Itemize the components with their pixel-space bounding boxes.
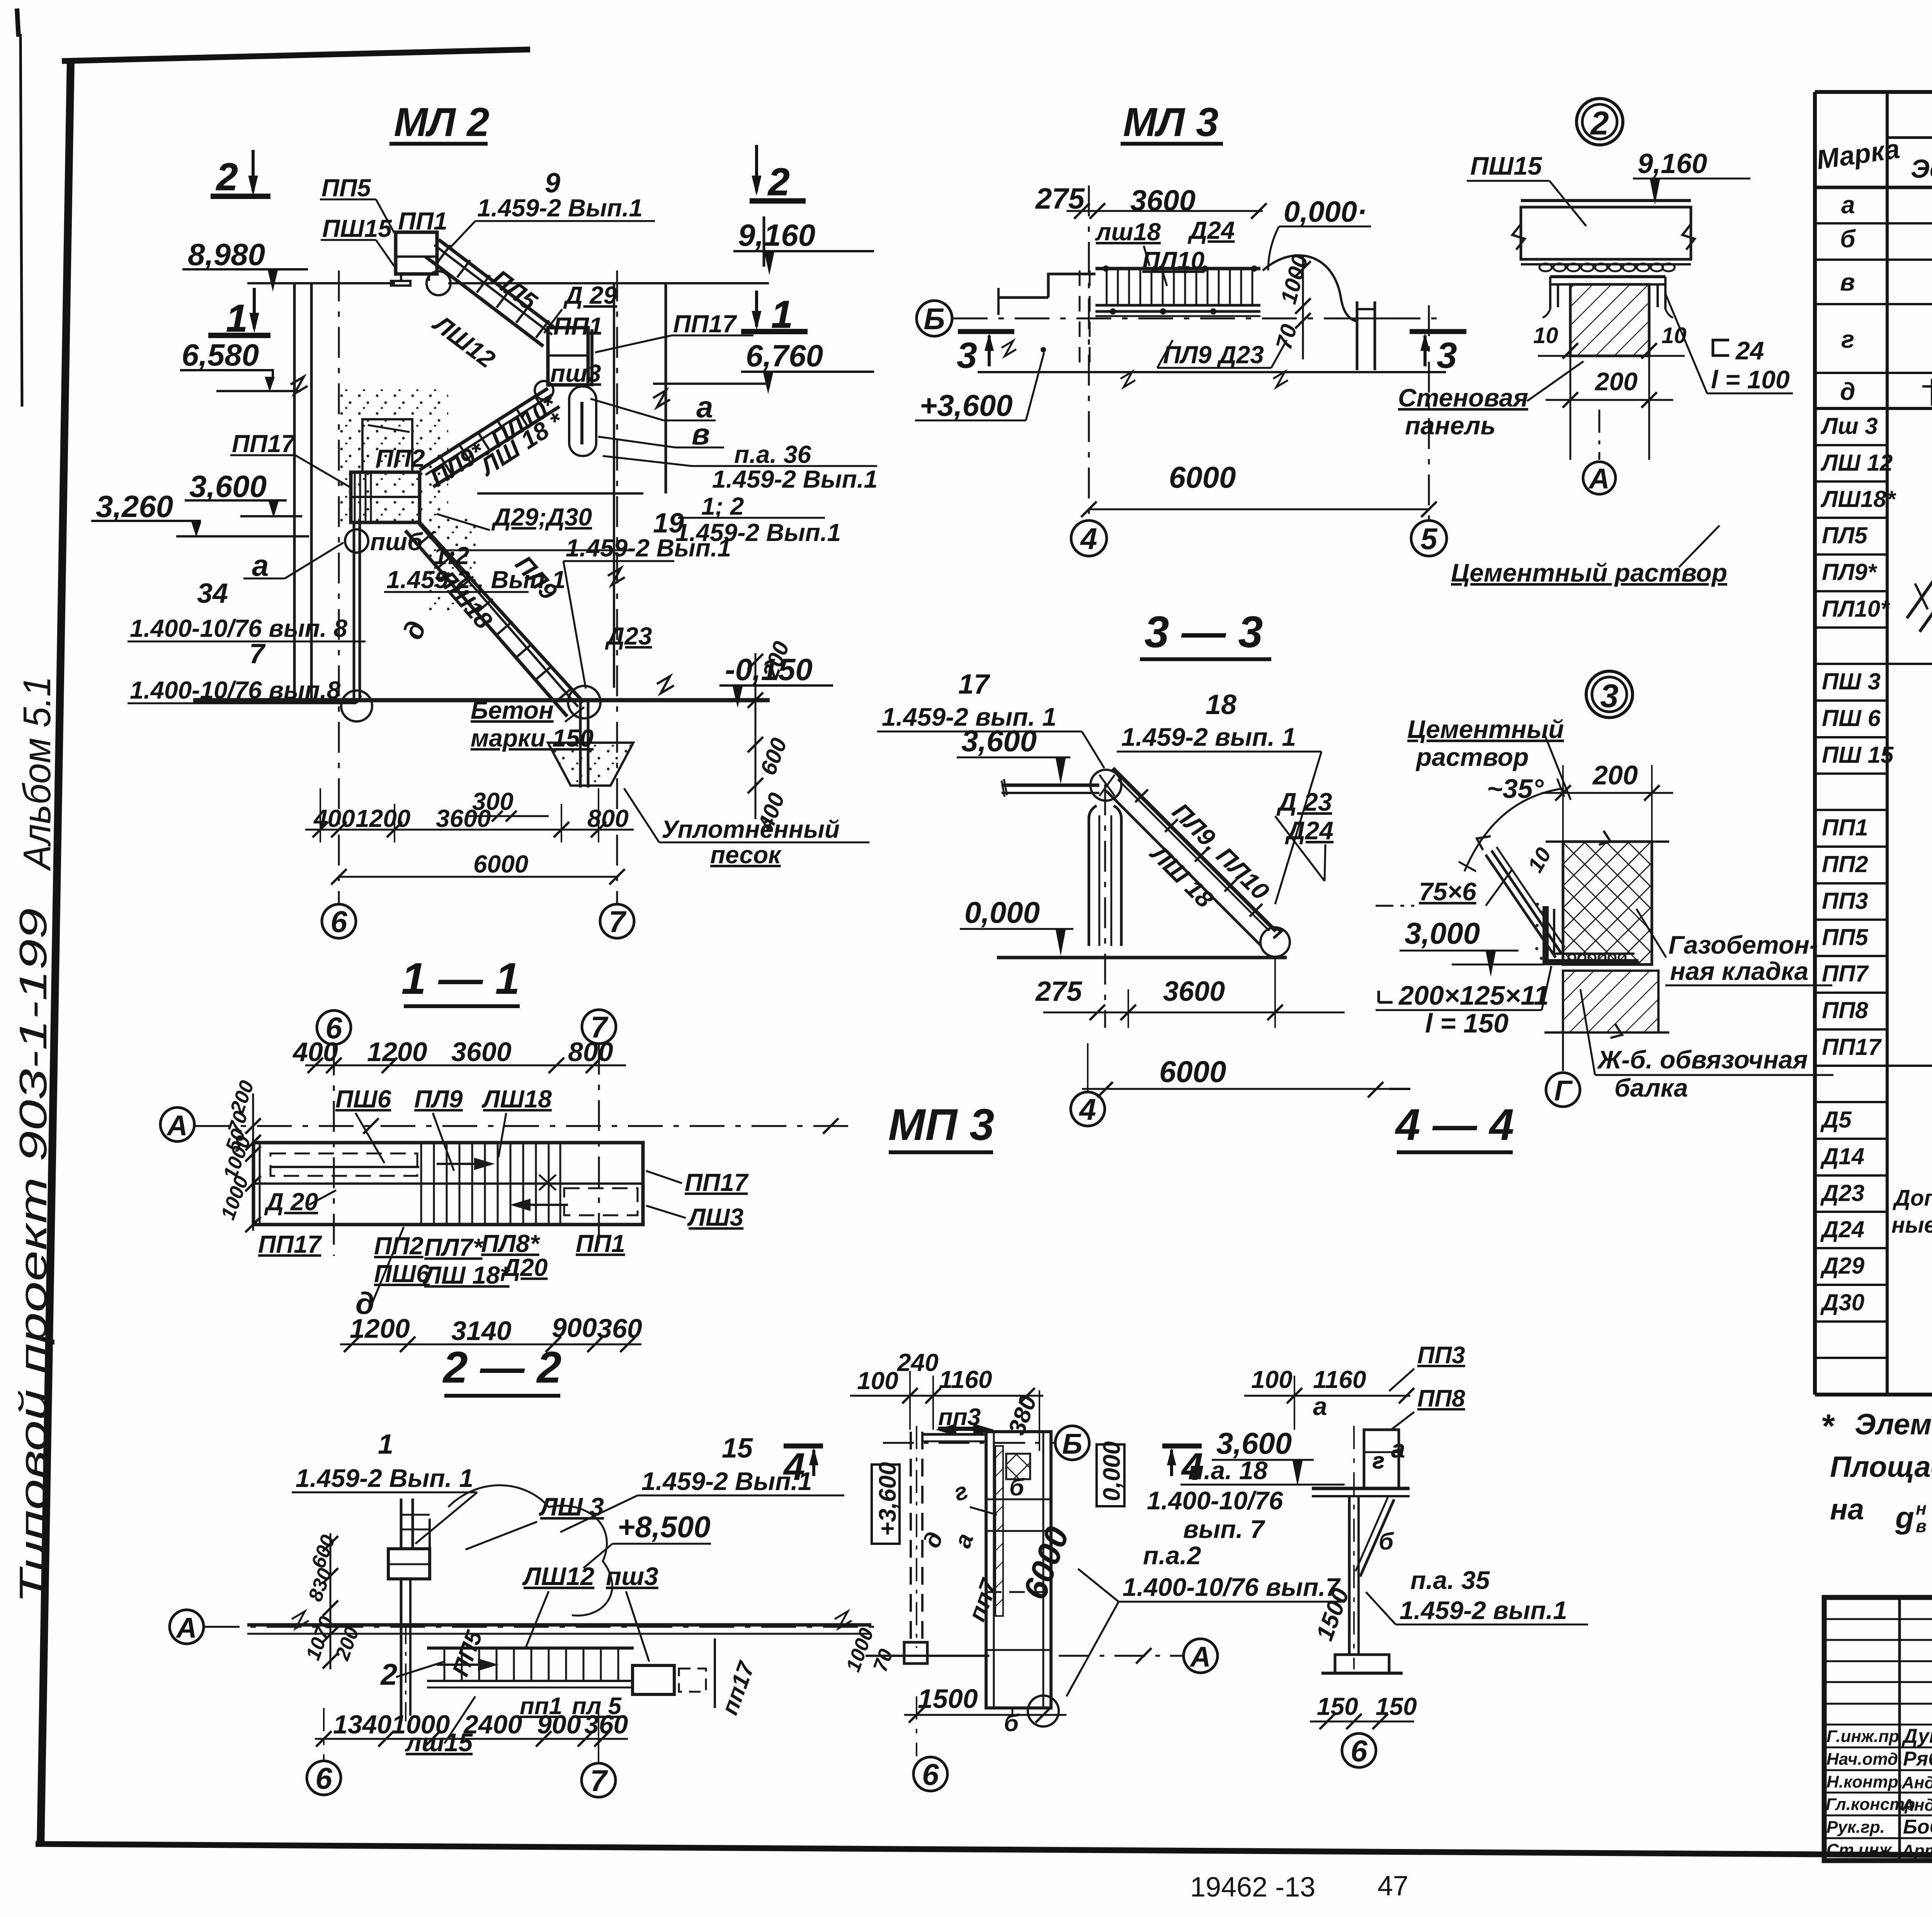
svg-text:4: 4 [783, 1445, 805, 1488]
svg-text:Б: Б [1062, 1428, 1082, 1460]
svg-text:1000: 1000 [391, 1710, 450, 1739]
grid bubble 6 top [317, 1010, 351, 1044]
section mark 3 with arrow (left) [958, 329, 1014, 334]
svg-text:1; 2: 1; 2 [701, 492, 744, 520]
svg-text:Д24: Д24 [1820, 1216, 1864, 1242]
0,000 boxed rotated [1097, 1444, 1124, 1506]
top platform [1312, 1430, 1410, 1496]
svg-text:9,160: 9,160 [738, 218, 815, 252]
sketch cell separators [1887, 663, 1932, 665]
svg-text:8,980: 8,980 [188, 237, 265, 272]
label LSh12 rotated [427, 309, 500, 373]
svg-text:3,600: 3,600 [961, 724, 1037, 758]
sand dots area [340, 388, 448, 524]
svg-text:Д24: Д24 [1285, 816, 1333, 845]
svg-text:3: 3 [1437, 335, 1457, 376]
svg-text:Н.контр.: Н.контр. [1827, 1772, 1903, 1791]
svg-text:1.459-2 Вып.1: 1.459-2 Вып.1 [712, 465, 878, 493]
svg-text:пш3: пш3 [550, 359, 601, 387]
axis A [170, 1610, 204, 1644]
grid bubble 6 [1342, 1733, 1376, 1767]
svg-text:Думан: Думан [1901, 1725, 1932, 1747]
svg-text:0,000·: 0,000· [1284, 196, 1367, 228]
top dims 240 / 100 1160 [857, 1349, 992, 1395]
sheet frame bottom edge [36, 1844, 1932, 1859]
platform PP1 top [391, 232, 437, 286]
svg-text:1.459-2 Вып. 1: 1.459-2 Вып. 1 [296, 1464, 473, 1492]
labels PL9* PL10* rotated on flight B [425, 390, 562, 492]
svg-text:2: 2 [1590, 105, 1609, 142]
level line 6,760 right [653, 383, 769, 385]
svg-text:1200: 1200 [355, 805, 410, 832]
svg-text:19462 -13: 19462 -13 [1190, 1872, 1315, 1903]
floor beam +8.500 [247, 1623, 871, 1627]
svg-text:ПШ6: ПШ6 [335, 1085, 391, 1113]
left margin rotated stamp text [12, 676, 59, 1604]
column below platform [401, 1579, 410, 1723]
grid bubble 5 [1428, 305, 1430, 520]
right vertical dims 1000 / 70 [1276, 252, 1313, 306]
long floor line with breaks [978, 371, 1446, 373]
svg-text:1.459-2 вып.1: 1.459-2 вып.1 [1400, 1596, 1567, 1624]
marka column row lines [1815, 445, 1887, 1358]
rows a-d lines [1815, 222, 1932, 225]
grid bubble 7 top [582, 1010, 616, 1044]
grid bubble 7 [582, 1763, 616, 1797]
svg-text:1 — 1: 1 — 1 [401, 954, 520, 1004]
cloud edge right [1263, 255, 1358, 321]
svg-text:б: б [1840, 225, 1856, 253]
svg-text:6: 6 [1350, 1734, 1367, 1768]
scan artifact thin line top-left [20, 34, 22, 407]
labels below row2 [374, 1260, 511, 1289]
bottom dim chain [333, 1710, 628, 1739]
label LSh18* rotated [474, 407, 569, 481]
svg-text:2400: 2400 [463, 1710, 522, 1739]
svg-text:3600: 3600 [1163, 976, 1225, 1007]
svg-text:150: 150 [1376, 1692, 1417, 1720]
axis A bottom [1059, 1655, 1183, 1657]
node 2 bubble [1577, 99, 1623, 145]
svg-text:п.а.2: п.а.2 [1143, 1541, 1201, 1570]
svg-text:7: 7 [249, 638, 266, 669]
svg-text:l = 150: l = 150 [1425, 1008, 1509, 1038]
svg-text:Андриевская: Андриевская [1901, 1773, 1932, 1792]
svg-text:А: А [1189, 1641, 1211, 1673]
svg-text:3600: 3600 [1130, 184, 1196, 217]
svg-text:3600: 3600 [451, 1037, 512, 1067]
svg-text:п.а. 18: п.а. 18 [1188, 1456, 1268, 1485]
bubble A [1583, 462, 1616, 494]
svg-text:1.400-10/76 вып.7: 1.400-10/76 вып.7 [1122, 1573, 1341, 1601]
platform PP1 middle [548, 328, 592, 386]
svg-text:пш3: пш3 [606, 1562, 658, 1590]
svg-text:Нач.отд.: Нач.отд. [1827, 1750, 1903, 1769]
svg-text:Площадки: и лестницы рассчитан: Площадки: и лестницы рассчитаны [1830, 1451, 1932, 1483]
svg-text:6000: 6000 [1169, 460, 1236, 494]
node circle bottom of flight C [568, 686, 600, 718]
grid bubble 6 [307, 1761, 341, 1795]
svg-text:3140: 3140 [451, 1316, 512, 1346]
svg-text:1.400-10/76: 1.400-10/76 [1147, 1486, 1284, 1515]
svg-text:Рук.гр.: Рук.гр. [1827, 1818, 1885, 1837]
svg-text:ПП17: ПП17 [232, 430, 296, 458]
svg-text:Цементный: Цементный [1407, 715, 1564, 743]
svg-text:47: 47 [1378, 1871, 1408, 1902]
svg-text:ПП17: ПП17 [673, 310, 738, 338]
bottom dims [350, 1313, 642, 1346]
+3,600 boxed rotated [872, 1465, 900, 1544]
label PL5 rotated on flight A [487, 264, 543, 316]
node circle bottom of column PP2 [341, 691, 372, 721]
svg-text:l = 100: l = 100 [1711, 365, 1790, 394]
masonry panel hatch [1570, 284, 1649, 356]
upper platform element [388, 1499, 430, 1579]
axis Б [1055, 1426, 1089, 1460]
svg-text:*: * [1821, 1408, 1835, 1445]
node 3 bubble [1586, 671, 1633, 718]
svg-text:Д 29: Д 29 [563, 281, 617, 309]
svg-text:ПП5: ПП5 [321, 174, 371, 202]
svg-text:ПЛ9 Д23: ПЛ9 Д23 [1163, 341, 1264, 369]
svg-text:Д14: Д14 [1820, 1143, 1864, 1169]
svg-text:Д29: Д29 [1820, 1253, 1865, 1279]
right wall column [1343, 301, 1391, 370]
svg-text:17: 17 [958, 669, 990, 700]
flight band plan [1095, 269, 1260, 316]
column [1349, 1426, 1359, 1669]
svg-text:ЛШ18*: ЛШ18* [1820, 486, 1896, 512]
labels below row1 [258, 1230, 625, 1281]
svg-text:Бетон: Бетон [471, 696, 554, 724]
level 3,600 [185, 469, 287, 518]
svg-text:4: 4 [1078, 1092, 1096, 1126]
svg-text:на: на [1830, 1493, 1864, 1526]
svg-text:ПП2: ПП2 [374, 1232, 423, 1260]
wall line right [613, 283, 615, 688]
svg-text:Газобетон-: Газобетон- [1668, 930, 1818, 959]
header texts [1815, 103, 1932, 190]
svg-text:ПЛ9*: ПЛ9* [1822, 559, 1878, 585]
svg-text:1: 1 [378, 1429, 393, 1460]
bottom dims 150 150 [1317, 1692, 1417, 1720]
grid bubble 4 [1071, 1092, 1105, 1126]
labels around flight [447, 1627, 487, 1680]
svg-text:Б: Б [923, 302, 945, 336]
cloud around upper platform [448, 1485, 612, 1616]
level line 6,580 left [216, 390, 301, 392]
wall double line left [293, 283, 296, 700]
section mark 1 (left) [208, 288, 270, 340]
svg-text:Д 20: Д 20 [264, 1188, 318, 1216]
dim 6000 rotated [1016, 1522, 1077, 1604]
column under PP2 [353, 522, 355, 700]
svg-text:+8,500: +8,500 [617, 1510, 711, 1544]
label 10 rotated [1523, 844, 1556, 876]
cement stipple left of angle [1535, 903, 1543, 960]
grid bubble 7 [600, 904, 634, 938]
svg-text:1340: 1340 [333, 1710, 391, 1739]
level 9,160 [733, 218, 874, 275]
label PL9 rotated on flight C [510, 550, 563, 605]
door rect above PP2 [362, 419, 412, 472]
svg-text:Бобрук: Бобрук [1903, 1816, 1932, 1838]
svg-text:МЛ 2: МЛ 2 [394, 100, 489, 145]
channel C24 web and flanges [1543, 277, 1673, 318]
svg-text:балка: балка [1614, 1073, 1688, 1102]
svg-text:Ст.инж: Ст.инж [1827, 1840, 1893, 1859]
svg-text:Рябуха: Рябуха [1903, 1748, 1932, 1770]
svg-text:Д23: Д23 [1820, 1180, 1864, 1206]
svg-text:6: 6 [330, 905, 347, 939]
ground line [997, 956, 1287, 959]
bottom node circle [1260, 927, 1290, 957]
svg-text:~35°: ~35° [1487, 774, 1544, 804]
level -0,150 [719, 652, 833, 708]
svg-text:800: 800 [568, 1037, 613, 1067]
svg-text:1200: 1200 [350, 1313, 410, 1344]
break marks [291, 377, 308, 394]
svg-text:1.459-2 , Вып.1: 1.459-2 , Вып.1 [386, 566, 566, 594]
svg-text:6: 6 [315, 1761, 332, 1795]
lower hatch block (beam) [1563, 971, 1658, 1032]
section mark 2 (left) [211, 150, 270, 199]
svg-text:100: 100 [857, 1367, 898, 1395]
ЛШ/ПЛ sketch [1907, 454, 1932, 632]
svg-text:2: 2 [380, 1657, 397, 1691]
svg-text:ПП1: ПП1 [1822, 815, 1868, 840]
level line 9,160 top [247, 282, 395, 284]
diagonal brace [1360, 1499, 1394, 1577]
section mark 4 left [784, 1444, 823, 1449]
grid axis 7 [616, 270, 618, 904]
ground line [193, 698, 770, 703]
svg-text:3: 3 [1600, 678, 1618, 714]
svg-text:400: 400 [313, 805, 355, 832]
svg-text:Ж-б. обвязочная: Ж-б. обвязочная [1597, 1045, 1808, 1074]
svg-text:3,600: 3,600 [1216, 1426, 1292, 1460]
svg-text:марки 150: марки 150 [471, 724, 594, 752]
svg-text:ПШ 3: ПШ 3 [1822, 668, 1881, 694]
svg-text:150: 150 [1317, 1692, 1358, 1720]
angle bracket 200x125x11 [1546, 906, 1638, 962]
svg-text:18: 18 [1206, 689, 1236, 720]
svg-text:Уплотнённый: Уплотнённый [662, 815, 840, 843]
svg-text:б: б [1379, 1528, 1394, 1555]
svg-text:ЛШ 12: ЛШ 12 [1820, 450, 1893, 476]
svg-text:ПП1: ПП1 [398, 207, 447, 235]
svg-text:ПП7: ПП7 [1822, 961, 1869, 987]
plan body [253, 1143, 643, 1225]
svg-text:Дополнитель-: Дополнитель- [1892, 1186, 1932, 1211]
svg-text:1500: 1500 [918, 1684, 978, 1714]
svg-text:9,160: 9,160 [1638, 148, 1707, 179]
svg-text:А: А [1588, 463, 1609, 495]
svg-text:Артамонова: Артамонова [1901, 1841, 1932, 1860]
axis A [160, 1107, 194, 1141]
stair flight band [427, 1648, 634, 1687]
svg-text:ПП17: ПП17 [1822, 1034, 1882, 1060]
svg-text:ПШ6: ПШ6 [374, 1260, 430, 1288]
svg-text:2: 2 [767, 160, 790, 204]
label C 24 l=100 [1713, 340, 1729, 356]
svg-text:5: 5 [1420, 522, 1438, 556]
svg-text:ПШ15: ПШ15 [322, 214, 392, 242]
level 3,260 [91, 489, 201, 537]
svg-text:Лш 3: Лш 3 [1820, 413, 1878, 439]
svg-text:А: А [166, 1109, 187, 1141]
svg-text:15: 15 [722, 1433, 753, 1464]
label 200x125x11 [1379, 991, 1393, 1002]
svg-text:д: д [1840, 378, 1855, 405]
svg-text:6000: 6000 [473, 850, 528, 878]
svg-text:а: а [1841, 191, 1855, 219]
dim 275 / 3600 [1035, 182, 1196, 217]
dim 380 rotated [1003, 1392, 1042, 1439]
svg-text:ПЛ10*: ПЛ10* [1822, 596, 1890, 622]
svg-text:песок: песок [710, 841, 782, 869]
mark rows and weights [1820, 413, 1932, 1316]
svg-text:ПП2: ПП2 [376, 444, 425, 472]
svg-text:ПП1: ПП1 [553, 312, 603, 340]
svg-text:Элементы укоротить по месту.: Элементы укоротить по месту. [1855, 1408, 1932, 1441]
svg-text:раствор: раствор [1415, 743, 1529, 771]
svg-text:ПП3: ПП3 [1822, 888, 1868, 914]
label LSh18 rotated on flight C [431, 563, 498, 634]
svg-text:2 — 2: 2 — 2 [442, 1343, 562, 1392]
svg-text:+3,600: +3,600 [920, 388, 1013, 422]
svg-text:Г: Г [1554, 1075, 1573, 1107]
svg-text:ПП17: ПП17 [685, 1169, 749, 1196]
svg-text:0,000: 0,000 [1099, 1441, 1125, 1501]
top node circle [1090, 770, 1121, 801]
svg-text:Д5: Д5 [1820, 1107, 1852, 1133]
level 8,980 [182, 237, 308, 292]
svg-text:6: 6 [922, 1757, 939, 1791]
svg-text:3 — 3: 3 — 3 [1145, 607, 1263, 657]
svg-text:4: 4 [1080, 522, 1097, 556]
svg-text:1.459-2 вып. 1: 1.459-2 вып. 1 [1121, 723, 1296, 751]
svg-text:ПШ 6: ПШ 6 [1822, 705, 1881, 731]
svg-text:1.459-2 Вып.1: 1.459-2 Вып.1 [477, 194, 643, 222]
svg-text:Д24: Д24 [1187, 216, 1235, 244]
svg-text:200×125×11: 200×125×11 [1398, 980, 1549, 1010]
signature labels [1826, 1727, 1915, 1859]
table outer borders [1815, 90, 1932, 94]
foundation [1321, 1655, 1403, 1673]
svg-text:75×6: 75×6 [1419, 877, 1477, 906]
svg-text:пшб: пшб [370, 528, 423, 556]
grid bubble 4 [1088, 185, 1090, 520]
svg-text:7: 7 [609, 905, 627, 939]
scan tick top-left corner [17, 9, 19, 37]
svg-text:ПШ15: ПШ15 [1470, 151, 1543, 180]
svg-text:360: 360 [597, 1313, 642, 1344]
column [1089, 806, 1121, 946]
intermediate floor line [477, 492, 643, 495]
table header horizontals [1887, 136, 1932, 139]
svg-text:А: А [175, 1612, 197, 1644]
svg-text:б: б [1004, 1710, 1019, 1737]
svg-text:а: а [252, 548, 269, 582]
svg-text:Эскиз: Эскиз [1911, 154, 1932, 184]
ground tick under body [866, 1655, 989, 1657]
svg-text:0,000: 0,000 [964, 895, 1040, 929]
svg-text:в: в [1840, 268, 1855, 296]
svg-text:7: 7 [590, 1764, 608, 1798]
svg-text:г: г [1372, 1448, 1384, 1473]
svg-text:34: 34 [197, 578, 228, 609]
svg-text:вып. 7: вып. 7 [1183, 1515, 1265, 1543]
svg-text:Типовой проект 903-1-199: Типовой проект 903-1-199 [12, 908, 55, 1604]
svg-text:Г.инж.пр: Г.инж.пр [1827, 1727, 1899, 1746]
right rotated dims [842, 1625, 898, 1675]
left rotated dims [217, 1078, 259, 1223]
break marks slab [1512, 224, 1525, 250]
svg-text:10: 10 [1533, 323, 1558, 348]
slab rectangle [1521, 207, 1691, 259]
svg-text:400: 400 [292, 1037, 338, 1067]
insulation bubbles [1539, 264, 1675, 271]
svg-text:Альбом 5.1: Альбом 5.1 [15, 676, 59, 871]
svg-text:1.400-10/76 вып. 8: 1.400-10/76 вып. 8 [130, 614, 347, 642]
foundation pit with sand [548, 743, 633, 786]
svg-text:ЛШ18: ЛШ18 [481, 1085, 552, 1113]
label d small [397, 617, 432, 643]
svg-text:ПП2: ПП2 [1822, 851, 1868, 877]
svg-text:800: 800 [587, 805, 629, 832]
svg-text:3,000: 3,000 [1405, 916, 1480, 950]
dim chain top [292, 1037, 613, 1067]
top dims 100 1160 [1251, 1366, 1366, 1393]
svg-text:ПП3: ПП3 [1417, 1342, 1465, 1369]
svg-text:100: 100 [1251, 1366, 1293, 1393]
ladder flight [1106, 768, 1281, 945]
svg-text:g: g [1895, 1500, 1914, 1535]
svg-text:МП 3: МП 3 [888, 1100, 994, 1150]
sheet frame top edge [62, 49, 530, 61]
svg-text:п.а. 36: п.а. 36 [734, 441, 811, 468]
svg-text:Д30: Д30 [1820, 1289, 1864, 1315]
svg-text:а: а [1313, 1392, 1327, 1420]
svg-text:Андриевская: Андриевская [1901, 1796, 1932, 1815]
svg-text:1160: 1160 [1313, 1366, 1366, 1393]
eskiz d glyph [1922, 379, 1932, 406]
flight C rails [405, 521, 583, 716]
svg-text:200: 200 [1594, 367, 1638, 396]
grid axis 4 dashline [1104, 784, 1106, 1028]
svg-text:4 — 4: 4 — 4 [1395, 1100, 1514, 1150]
rows a-d content [1840, 191, 1856, 405]
svg-text:п.а. 35: п.а. 35 [1410, 1566, 1490, 1594]
section mark 3 with arrow (right) [1410, 329, 1466, 334]
svg-text:1.400-10/76 вып.8: 1.400-10/76 вып.8 [130, 676, 341, 704]
labels above plan [335, 1085, 552, 1113]
grid bubble Б [917, 301, 952, 336]
svg-text:ПЛ7*: ПЛ7* [424, 1233, 484, 1261]
grid bubble 6 [913, 1757, 947, 1791]
svg-text:в: в [1916, 1516, 1927, 1536]
svg-text:ЛШ3: ЛШ3 [687, 1203, 743, 1231]
section mark 1 (right) [741, 291, 808, 336]
section mark 4 right [1162, 1444, 1202, 1449]
svg-text:г: г [1841, 325, 1854, 353]
svg-text:ПП8: ПП8 [1822, 997, 1868, 1023]
svg-text:ПП17: ПП17 [258, 1230, 323, 1258]
cross hatched pad [1006, 1454, 1030, 1479]
left rotated dims [302, 1532, 364, 1664]
svg-text:ные элементы: ные элементы [1891, 1213, 1932, 1238]
